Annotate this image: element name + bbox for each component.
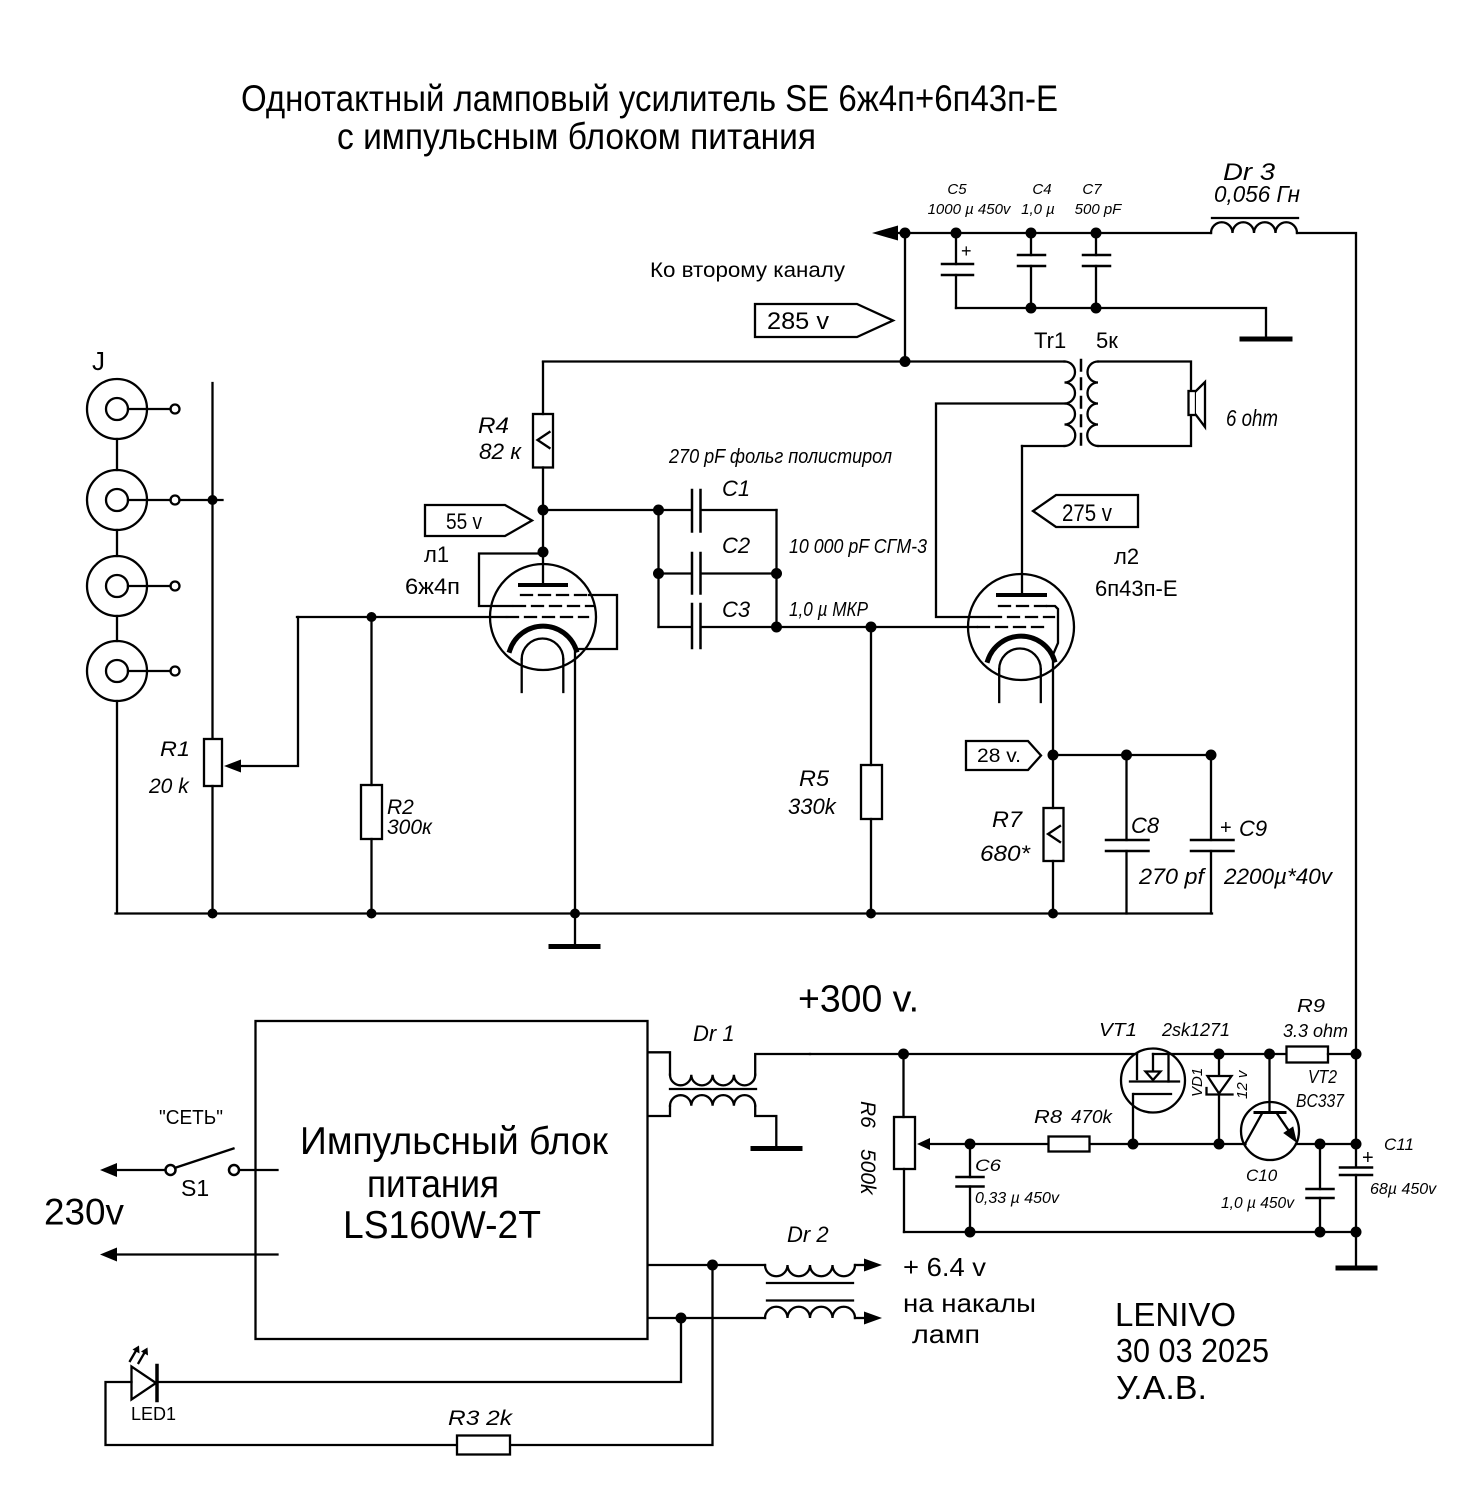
label LENIVO xyxy=(1115,1296,1236,1333)
capacitor C8 xyxy=(1106,755,1149,914)
R1 label xyxy=(160,738,190,761)
Dr1 label xyxy=(693,1021,735,1046)
svg-text:1000 µ 450v: 1000 µ 450v xyxy=(928,201,1012,218)
svg-text:C1: C1 xyxy=(722,476,750,501)
label ламп xyxy=(912,1319,980,1349)
R6 wiper arrow xyxy=(917,1138,930,1150)
svg-text:470k: 470k xyxy=(1071,1107,1113,1127)
node LED tap junction xyxy=(676,1313,687,1324)
svg-text:LENIVO: LENIVO xyxy=(1115,1296,1236,1333)
Dr2 label xyxy=(787,1222,829,1247)
svg-text:R7: R7 xyxy=(992,807,1023,832)
svg-text:R3 2k: R3 2k xyxy=(448,1407,514,1430)
wire R9 to right rail xyxy=(1328,1053,1356,1055)
svg-text:680*: 680* xyxy=(980,841,1032,866)
wire jack chain to ground bus xyxy=(116,701,118,914)
wire Tr1 secondary top to speaker xyxy=(1098,362,1191,392)
wire grid of tube1 xyxy=(297,616,505,618)
svg-text:VT2: VT2 xyxy=(1308,1067,1337,1087)
capacitor C4 xyxy=(1018,233,1045,308)
R5 value 330k xyxy=(788,794,837,819)
flag 275 v text xyxy=(1062,500,1112,527)
connector label J xyxy=(92,346,105,376)
svg-text:500 pF: 500 pF xyxy=(1075,201,1123,218)
wire regulator bottom bus xyxy=(904,1231,1356,1233)
wire riser to Tr1 rail xyxy=(904,233,906,362)
tube L1 envelope xyxy=(490,564,596,670)
node R2 ground junction xyxy=(367,909,377,919)
choke Dr1 bottom winding xyxy=(649,1095,777,1146)
wire R4 bottom to anode node xyxy=(542,468,544,511)
svg-text:C10: C10 xyxy=(1246,1166,1278,1185)
resistor R5 xyxy=(861,765,882,819)
S1 label xyxy=(181,1175,209,1201)
C5 value 1000 µ 450v xyxy=(928,201,1012,218)
wire R2 top to grid wire xyxy=(370,617,372,785)
wire jack2 pin to input bus xyxy=(180,499,223,501)
wire filter bottom bus xyxy=(956,308,1266,337)
svg-text:R8: R8 xyxy=(1034,1107,1062,1127)
PSU text line 2 xyxy=(367,1163,499,1206)
C5 plus sign xyxy=(961,241,972,261)
tube L2 grid g1 dashes xyxy=(978,626,1044,628)
inductor Dr3 core line xyxy=(1212,217,1298,219)
svg-text:У.А.В.: У.А.В. xyxy=(1116,1369,1207,1406)
svg-text:на накалы: на накалы xyxy=(903,1288,1036,1318)
wire C bank right bus xyxy=(775,510,777,627)
svg-text:Импульсный блок: Импульсный блок xyxy=(300,1120,609,1163)
VT2 emitter arrow xyxy=(1283,1126,1297,1143)
node C bank left top xyxy=(653,505,664,516)
svg-text:0,056 Гн: 0,056 Гн xyxy=(1214,181,1300,207)
potentiometer R6 xyxy=(894,1117,915,1169)
wire bus to ground xyxy=(1355,1232,1357,1266)
resistor R8 xyxy=(1049,1137,1090,1152)
R8 value 470k xyxy=(1071,1107,1113,1127)
node R1 ground junction xyxy=(208,909,218,919)
svg-text:Dr 2: Dr 2 xyxy=(787,1222,829,1247)
resistor R2 xyxy=(361,785,382,839)
tube L1 type 6ж4п xyxy=(405,574,460,599)
RCA jack J4 xyxy=(87,641,180,701)
capacitor C6 xyxy=(957,1144,984,1232)
wire Tr1 secondary bottom to speaker xyxy=(1098,415,1191,446)
tube L2 anode lead xyxy=(1021,446,1023,593)
LED1 light arrows xyxy=(130,1349,146,1363)
wire emitter line xyxy=(1296,1143,1356,1145)
C4 label xyxy=(1032,181,1051,198)
node VD1 top junction xyxy=(1214,1049,1225,1060)
svg-text:285 v: 285 v xyxy=(767,308,829,335)
VD1 value 12 v rotated xyxy=(1234,1069,1251,1099)
C10 value 1,0 µ 450v xyxy=(1221,1195,1295,1212)
svg-text:1,0 µ: 1,0 µ xyxy=(1021,201,1055,218)
node C11 bottom junction xyxy=(1351,1227,1362,1238)
wire cathode node to C9 xyxy=(1053,754,1211,756)
svg-text:C6: C6 xyxy=(975,1156,1002,1175)
svg-text:270 pf: 270 pf xyxy=(1138,864,1207,889)
svg-text:300к: 300к xyxy=(387,816,433,839)
wire mains line 2 xyxy=(117,1253,278,1255)
svg-text:Однотактный ламповый усилитель: Однотактный ламповый усилитель SE 6ж4п+6… xyxy=(241,78,1058,119)
transistor VT2 BC337 xyxy=(1241,1054,1299,1160)
label Ко второму каналу xyxy=(650,259,846,282)
ground symbol regulator xyxy=(1338,1266,1375,1271)
R6 value 500k rotated xyxy=(856,1149,879,1196)
label У.А.В. xyxy=(1116,1369,1207,1406)
R2 label xyxy=(387,796,414,819)
R4 select mark xyxy=(538,432,550,448)
wire mains line 1 xyxy=(117,1169,278,1171)
tube L2 type 6п43п-Е xyxy=(1095,576,1178,601)
svg-text:330k: 330k xyxy=(788,794,837,819)
C8 label xyxy=(1131,813,1160,838)
svg-text:C8: C8 xyxy=(1131,813,1160,838)
node C7 bottom junction xyxy=(1091,303,1102,314)
tube L1 grid g2 dashes xyxy=(514,605,593,607)
wire B+ top rail xyxy=(896,232,1211,234)
ground symbol filter xyxy=(1242,337,1290,342)
svg-text:2200µ*40v: 2200µ*40v xyxy=(1223,864,1334,889)
Dr3 label xyxy=(1223,159,1276,186)
RCA jack J1 xyxy=(87,379,180,439)
svg-text:C4: C4 xyxy=(1032,181,1051,198)
resistor R7 xyxy=(1044,808,1064,861)
node R2 grid junction xyxy=(367,612,377,622)
svg-text:275 v: 275 v xyxy=(1062,500,1112,527)
svg-text:C2: C2 xyxy=(722,533,750,558)
flag 55 v text xyxy=(446,509,482,534)
svg-text:28 v.: 28 v. xyxy=(977,746,1021,767)
choke Dr2 top winding xyxy=(649,1265,865,1276)
tube L1 label xyxy=(424,542,449,567)
svg-text:55 v: 55 v xyxy=(446,509,482,534)
PSU text line 1 xyxy=(300,1120,609,1163)
VT1 label xyxy=(1099,1020,1137,1040)
tube L1 g2 strap to anode xyxy=(479,554,543,607)
RCA jack J3 xyxy=(87,556,180,616)
wire R5 bottom to ground bus xyxy=(870,819,872,914)
svg-text:500k: 500k xyxy=(856,1149,879,1196)
node C4 top junction xyxy=(1026,228,1037,239)
svg-text:VD1: VD1 xyxy=(1189,1068,1206,1097)
svg-text:20 k: 20 k xyxy=(148,775,190,798)
speaker impedance 6 ohm xyxy=(1226,405,1278,431)
svg-text:R6: R6 xyxy=(856,1101,879,1128)
svg-text:C7: C7 xyxy=(1082,181,1102,198)
svg-text:S1: S1 xyxy=(181,1175,209,1201)
tube L1 heater legs xyxy=(522,659,564,692)
R7 label xyxy=(992,807,1023,832)
C11 label xyxy=(1384,1135,1414,1154)
capacitor C11 polarized xyxy=(1340,1168,1372,1233)
VT2 label xyxy=(1308,1067,1337,1087)
resistor R4 xyxy=(533,414,553,468)
resistor R3 xyxy=(457,1436,510,1455)
node R5 ground junction xyxy=(866,909,876,919)
label СЕТЬ xyxy=(159,1107,223,1129)
tube L2 envelope xyxy=(968,574,1074,680)
Dr3 value 0,056 Гн xyxy=(1214,181,1300,207)
node C7 top junction xyxy=(1091,228,1102,239)
node top rail riser junction xyxy=(900,228,911,239)
Tr1 core dashes xyxy=(1080,360,1083,448)
tube L2 grid g2 dashes xyxy=(990,616,1054,618)
arrow mains 1 xyxy=(100,1163,117,1177)
tube L1 g3 strap to cathode xyxy=(576,595,617,649)
C8 value 270 pf xyxy=(1138,864,1207,889)
label 270 pF фольг полистирол xyxy=(668,446,892,468)
node C10 top junction xyxy=(1315,1139,1326,1150)
R5 label xyxy=(799,766,830,791)
speaker xyxy=(1189,382,1206,427)
flag 28 v xyxy=(966,741,1041,770)
wire R3 riser xyxy=(510,1265,713,1445)
C9 value 2200µ*40v xyxy=(1223,864,1334,889)
arrow heater output 1 xyxy=(864,1259,882,1272)
wire +300 rail xyxy=(810,1053,1137,1055)
wire bias line xyxy=(931,1143,1246,1145)
capacitor C9 polarized xyxy=(1191,755,1234,914)
tube L1 grid g1 dashes xyxy=(507,616,588,618)
RCA jack J2 xyxy=(87,470,180,530)
svg-text:+ 6.4 v: + 6.4 v xyxy=(903,1252,986,1282)
svg-text:с импульсным блоком питания: с импульсным блоком питания xyxy=(337,116,816,157)
svg-text:л2: л2 xyxy=(1114,544,1139,569)
svg-text:6ж4п: 6ж4п xyxy=(405,574,460,599)
wire R2 bottom to ground bus xyxy=(370,839,372,914)
label на накалы xyxy=(903,1288,1036,1318)
svg-text:VT1: VT1 xyxy=(1099,1020,1137,1040)
tube L2 g3 strap to cathode xyxy=(1047,606,1058,657)
node anode R4 junction xyxy=(538,505,549,516)
VT2 type BC337 xyxy=(1296,1091,1345,1111)
node VD1 bottom junction xyxy=(1214,1139,1225,1150)
svg-text:ламп: ламп xyxy=(912,1319,980,1349)
Dr1 core line xyxy=(670,1088,756,1090)
wire LED anode down xyxy=(106,1382,458,1445)
wire Tr1 primary bottom to anode xyxy=(1022,445,1065,447)
label +300 v. xyxy=(798,979,919,1021)
arrow to second channel xyxy=(872,226,898,241)
wire Dr3 to right edge rail xyxy=(1297,233,1356,1054)
wire coupling to tube2 grid xyxy=(777,626,978,628)
node VT1 gate junction xyxy=(1128,1139,1139,1150)
R7 value 680* xyxy=(980,841,1032,866)
wire +300 rail right segment xyxy=(1153,1053,1287,1055)
capacitor C10 xyxy=(1307,1144,1334,1232)
svg-text:R5: R5 xyxy=(799,766,830,791)
node C2 right junction xyxy=(771,568,782,579)
Dr2 core lines xyxy=(767,1283,853,1301)
svg-text:R9: R9 xyxy=(1297,996,1325,1016)
R6 label rotated xyxy=(856,1101,879,1128)
transistor VT1 mosfet xyxy=(1121,1049,1185,1113)
C7 value 500 pF xyxy=(1075,201,1123,218)
C9 label xyxy=(1239,816,1267,841)
transformer Tr1 label xyxy=(1034,328,1066,353)
flag 285 v xyxy=(755,304,893,337)
choke Dr1 top winding xyxy=(649,1052,811,1085)
wire R1 bottom to ground bus xyxy=(211,786,213,914)
VD1 label rotated xyxy=(1189,1068,1206,1097)
wire input bus vertical xyxy=(211,383,213,739)
node cathode 28v junction xyxy=(1048,750,1059,761)
wire L1 cathode to ground bus xyxy=(574,649,576,914)
svg-text:12 v: 12 v xyxy=(1234,1069,1251,1099)
svg-text:68µ 450v: 68µ 450v xyxy=(1370,1181,1437,1198)
svg-text:5к: 5к xyxy=(1096,328,1118,353)
C9 plus sign xyxy=(1220,817,1232,839)
wire L2 cathode lead xyxy=(1052,658,1054,755)
tube L1 heater arc xyxy=(522,639,564,660)
C6 label xyxy=(975,1156,1002,1175)
VT1 type 2sk1271 xyxy=(1161,1020,1230,1040)
C10 label xyxy=(1246,1166,1278,1185)
svg-text:1,0 µ 450v: 1,0 µ 450v xyxy=(1221,1195,1295,1212)
svg-text:+: + xyxy=(1362,1147,1374,1169)
LED1 label xyxy=(131,1404,176,1424)
svg-text:+: + xyxy=(1220,817,1232,839)
svg-text:J: J xyxy=(92,346,105,376)
potentiometer R1 xyxy=(204,739,222,786)
node VT2 base junction xyxy=(1264,1049,1275,1060)
capacitor C3 xyxy=(659,604,777,648)
C11 plus sign xyxy=(1362,1147,1374,1169)
svg-text:1,0 µ МКР: 1,0 µ МКР xyxy=(789,599,869,621)
switch S1 xyxy=(166,1149,240,1176)
title line 1 xyxy=(241,78,1058,119)
inductor Dr3 xyxy=(1211,222,1297,233)
svg-text:C9: C9 xyxy=(1239,816,1267,841)
node anode g2 junction xyxy=(538,547,549,558)
svg-text:3.3 ohm: 3.3 ohm xyxy=(1283,1021,1348,1041)
node C5 top junction xyxy=(951,228,962,239)
label date 30 03 2025 xyxy=(1116,1332,1269,1369)
wire anode node down xyxy=(542,510,544,552)
node emitter right rail junction xyxy=(1351,1139,1362,1150)
svg-text:2sk1271: 2sk1271 xyxy=(1161,1020,1230,1040)
capacitor C5 polarized xyxy=(942,233,973,308)
resistor R9 xyxy=(1287,1047,1329,1063)
node R7 ground junction xyxy=(1048,909,1058,919)
C6 value 0,33 µ 450v xyxy=(975,1190,1060,1207)
LED LED1 xyxy=(132,1366,158,1401)
ground symbol Dr1 xyxy=(753,1146,800,1151)
tube L2 anode bar xyxy=(998,593,1045,597)
zener diode VD1 xyxy=(1207,1054,1233,1144)
svg-text:230v: 230v xyxy=(44,1192,124,1233)
wire jack shells chain xyxy=(116,439,118,641)
svg-text:Ко второму каналу: Ко второму каналу xyxy=(650,259,846,282)
wire R4 top to B+ rail xyxy=(542,362,544,414)
tube L2 heater legs xyxy=(999,669,1041,702)
choke Dr2 bottom winding xyxy=(649,1307,865,1318)
tube L2 cathode arc xyxy=(988,636,1055,660)
svg-text:+: + xyxy=(961,241,972,261)
svg-text:питания: питания xyxy=(367,1163,499,1206)
C11 value 68µ 450v xyxy=(1370,1181,1437,1198)
ground symbol main xyxy=(551,914,598,947)
tube L2 grid g3 dashes xyxy=(999,605,1046,607)
svg-text:л1: л1 xyxy=(424,542,449,567)
wire C bank left bus xyxy=(657,510,659,627)
R3 label 2k xyxy=(448,1407,514,1430)
node right rail R9 junction xyxy=(1351,1049,1362,1060)
wire anode node to C bank xyxy=(543,509,659,511)
title line 2 xyxy=(337,116,816,157)
wire ground bus xyxy=(116,912,1213,914)
svg-text:R1: R1 xyxy=(160,738,190,761)
tube L1 cathode arc xyxy=(510,626,577,650)
node cathode ground junction xyxy=(570,909,580,919)
node C2 left junction xyxy=(653,568,664,579)
PSU box LS160W-2T xyxy=(256,1021,648,1339)
tube L2 label xyxy=(1114,544,1139,569)
capacitor C7 xyxy=(1083,233,1110,308)
C3 label xyxy=(722,597,751,622)
wire R5 top lead xyxy=(870,627,872,765)
Tr1 secondary winding xyxy=(1087,362,1098,447)
R9 value 3.3 ohm xyxy=(1283,1021,1348,1041)
node R6 top junction xyxy=(898,1049,909,1060)
C2 label xyxy=(722,533,750,558)
svg-text:BC337: BC337 xyxy=(1296,1091,1345,1111)
wire R1 wiper to grid riser xyxy=(242,617,298,766)
node C6 top junction xyxy=(965,1139,976,1150)
R2 value 300к xyxy=(387,816,433,839)
PSU text line 3 xyxy=(343,1204,541,1247)
node input bus junction xyxy=(208,495,218,505)
R8 label xyxy=(1034,1107,1062,1127)
svg-text:270 pF фольг полистирол: 270 pF фольг полистирол xyxy=(668,446,892,468)
node C3 right junction xyxy=(771,622,782,633)
svg-text:0,33 µ 450v: 0,33 µ 450v xyxy=(975,1190,1060,1207)
svg-text:30 03 2025: 30 03 2025 xyxy=(1116,1332,1269,1369)
flag 55 v xyxy=(425,505,532,536)
wire R7 bottom to ground bus xyxy=(1052,861,1054,914)
R9 label xyxy=(1297,996,1325,1016)
node Tr1 rail junction xyxy=(900,356,911,367)
C1 label xyxy=(722,476,750,501)
tube L1 anode lead xyxy=(542,552,544,583)
svg-text:10 000 pF СГМ-3: 10 000 pF СГМ-3 xyxy=(789,536,927,558)
R4 value 82 к xyxy=(479,439,523,464)
Tr1 primary winding xyxy=(1065,362,1076,447)
R7 select mark xyxy=(1048,826,1060,842)
wire right rail through emitter xyxy=(1355,1054,1357,1167)
R1 value 20 k xyxy=(148,775,190,798)
node C6 bottom junction xyxy=(965,1227,976,1238)
C7 label xyxy=(1082,181,1102,198)
flag 285 v text xyxy=(767,308,829,335)
svg-text:LED1: LED1 xyxy=(131,1404,176,1424)
wire R6 bottom to bus xyxy=(903,1169,905,1232)
wire VT1 gate lead xyxy=(1132,1094,1134,1144)
flag 275 v xyxy=(1033,495,1138,527)
svg-text:R4: R4 xyxy=(478,413,509,438)
label 10 000 pF СГМ-3 xyxy=(789,536,927,558)
wire R6 top lead xyxy=(902,1054,904,1117)
arrow heater output 2 xyxy=(864,1312,882,1325)
node C9 top junction xyxy=(1206,750,1217,761)
label 230v xyxy=(44,1192,124,1233)
C5 label xyxy=(947,181,967,198)
node C4 bottom junction xyxy=(1026,303,1037,314)
capacitor C2 xyxy=(659,553,777,594)
node heater tap junction xyxy=(707,1260,718,1271)
wire LED riser xyxy=(157,1318,681,1382)
